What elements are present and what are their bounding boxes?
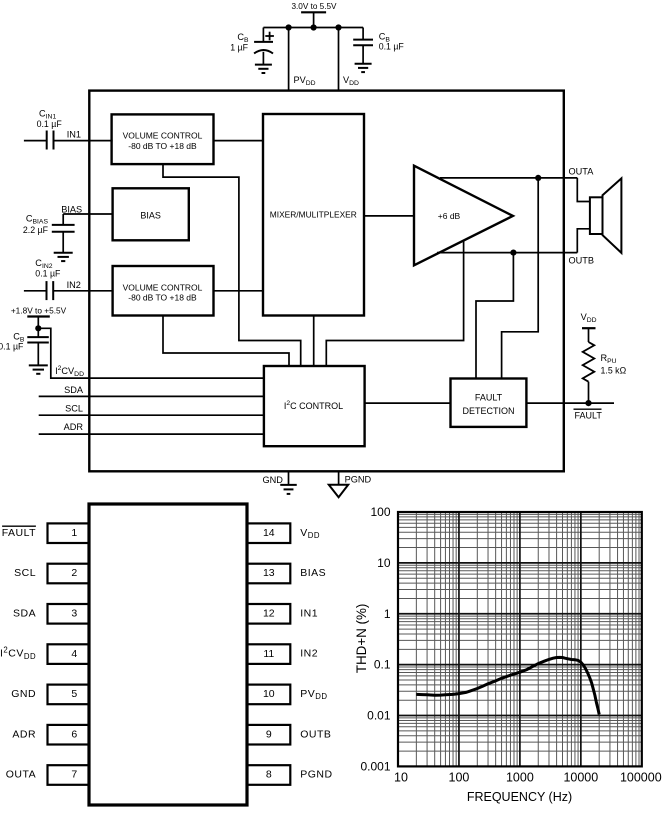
svg-text:1: 1 [384,607,391,621]
svg-text:OUTA: OUTA [6,769,36,781]
svg-text:0.1 µF: 0.1 µF [37,119,63,129]
svg-text:I2​C CONTROL: I2​C CONTROL [284,400,343,411]
svg-text:10000: 10000 [563,771,598,785]
svg-text:THD+N (%): THD+N (%) [354,604,369,674]
svg-text:MIXER/MULITPLEXER: MIXER/MULITPLEXER [270,210,357,220]
svg-text:1.5 kΩ: 1.5 kΩ [601,366,627,376]
svg-text:100: 100 [370,505,390,519]
svg-text:OUTB: OUTB [569,256,595,266]
svg-text:100: 100 [449,771,470,785]
svg-text:1 µF: 1 µF [230,43,248,53]
svg-text:SCL: SCL [14,567,36,579]
svg-text:BIAS: BIAS [300,567,326,579]
svg-text:IN1: IN1 [67,130,81,140]
svg-text:IN2: IN2 [67,280,81,290]
svg-text:9: 9 [266,728,272,740]
svg-text:DETECTION: DETECTION [462,406,514,416]
svg-text:FAULT: FAULT [475,393,503,403]
svg-text:FAULT: FAULT [2,527,36,539]
svg-text:8: 8 [266,769,272,781]
svg-text:6: 6 [71,728,77,740]
svg-text:ADR: ADR [64,422,84,432]
svg-text:1: 1 [71,527,77,539]
svg-text:0.1: 0.1 [374,658,391,672]
svg-text:VOLUME CONTROL: VOLUME CONTROL [123,282,203,292]
svg-text:0.1 µF: 0.1 µF [379,42,405,52]
svg-text:IN2: IN2 [300,648,318,660]
svg-text:12: 12 [263,608,275,620]
svg-text:4: 4 [71,648,77,660]
svg-text:10: 10 [394,771,408,785]
svg-text:1000: 1000 [506,771,534,785]
svg-text:3.0V to 5.5V: 3.0V to 5.5V [291,2,337,11]
svg-text:SDA: SDA [64,385,84,395]
svg-text:OUTB: OUTB [300,728,331,740]
svg-text:2.2 µF: 2.2 µF [23,225,49,235]
svg-text:SCL: SCL [65,403,83,413]
svg-text:14: 14 [263,527,275,539]
svg-text:SDA: SDA [13,607,36,619]
svg-text:-80 dB TO +18 dB: -80 dB TO +18 dB [128,141,197,151]
svg-text:2: 2 [71,567,77,579]
svg-text:PGND: PGND [345,474,372,484]
svg-text:FREQUENCY (Hz): FREQUENCY (Hz) [467,790,572,804]
svg-text:ADR: ADR [12,728,36,740]
svg-text:100000: 100000 [620,771,662,785]
svg-text:0.01: 0.01 [367,709,391,723]
svg-text:+1.8V to +5.5V: +1.8V to +5.5V [11,306,67,316]
svg-text:+6 dB: +6 dB [438,211,461,221]
svg-text:BIAS: BIAS [61,205,82,215]
svg-text:GND: GND [262,475,283,485]
svg-text:13: 13 [263,567,275,579]
svg-text:-80 dB TO +18 dB: -80 dB TO +18 dB [128,292,197,302]
svg-text:FAULT: FAULT [575,411,603,421]
svg-text:BIAS: BIAS [140,211,161,221]
svg-text:10: 10 [263,688,275,700]
svg-text:0.001: 0.001 [360,760,390,774]
svg-text:10: 10 [377,556,391,570]
svg-text:PGND: PGND [300,769,332,781]
svg-text:11: 11 [263,648,274,660]
svg-text:VOLUME CONTROL: VOLUME CONTROL [123,131,203,141]
svg-text:3: 3 [71,608,77,620]
svg-text:0.1 µF: 0.1 µF [35,269,61,279]
svg-text:5: 5 [71,688,77,700]
svg-text:OUTA: OUTA [569,167,595,177]
svg-text:GND: GND [11,688,36,700]
svg-text:IN1: IN1 [300,607,318,619]
svg-text:0.1 µF: 0.1 µF [0,342,24,352]
svg-text:7: 7 [71,769,77,781]
